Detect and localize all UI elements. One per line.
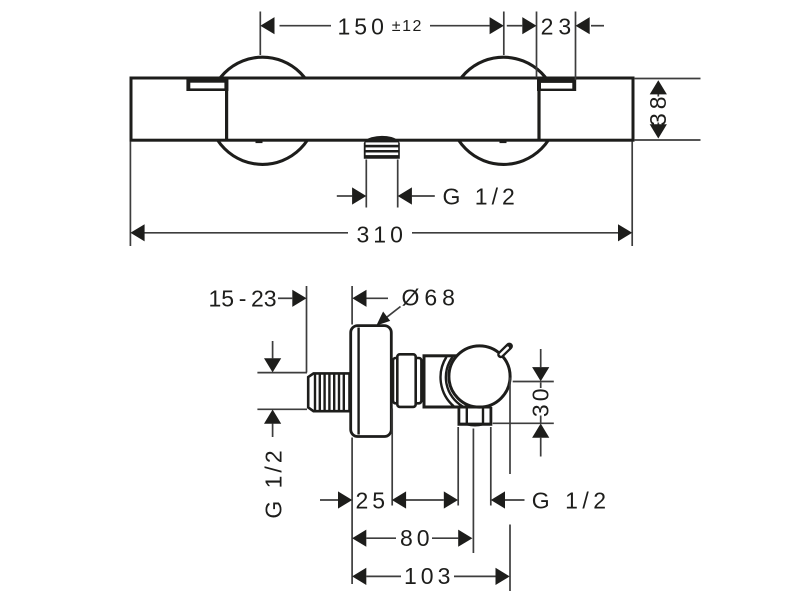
svg-text:±12: ±12 [392, 18, 423, 35]
svg-text:Ø68: Ø68 [402, 284, 460, 310]
svg-text:G 1/2: G 1/2 [443, 184, 519, 210]
svg-text:310: 310 [357, 222, 407, 248]
svg-text:23: 23 [541, 13, 577, 39]
svg-text:G 1/2: G 1/2 [532, 488, 611, 514]
svg-text:15 - 23: 15 - 23 [209, 286, 277, 312]
svg-text:103: 103 [404, 563, 454, 589]
svg-text:25: 25 [356, 488, 390, 514]
svg-text:G 1/2: G 1/2 [260, 447, 286, 518]
svg-text:30: 30 [528, 386, 554, 418]
svg-text:38: 38 [645, 92, 671, 126]
svg-text:150: 150 [338, 13, 388, 39]
svg-text:80: 80 [400, 525, 434, 551]
